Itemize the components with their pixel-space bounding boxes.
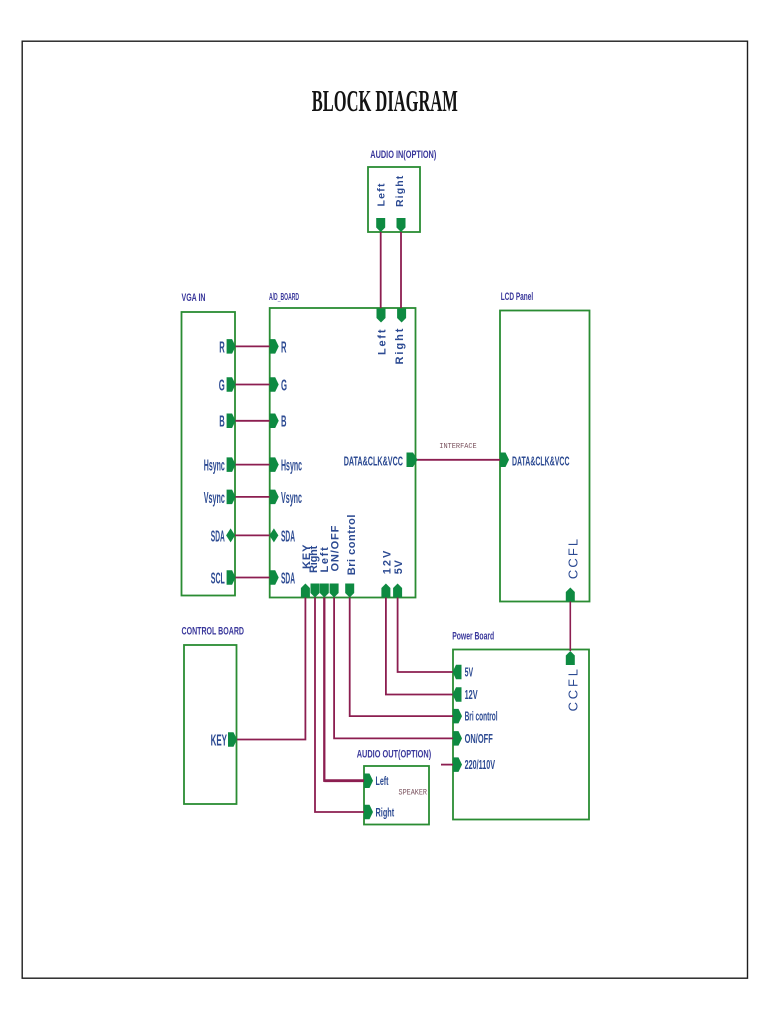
svg-text:R: R — [281, 339, 287, 356]
svg-text:Power Board: Power Board — [452, 631, 494, 643]
svg-text:220/110V: 220/110V — [465, 757, 496, 772]
svg-text:BLOCK DIAGRAM: BLOCK DIAGRAM — [312, 83, 458, 118]
svg-text:B: B — [219, 414, 225, 431]
svg-text:Right: Right — [376, 805, 395, 819]
svg-text:KEY: KEY — [211, 732, 228, 749]
svg-text:DATA&CLK&VCC: DATA&CLK&VCC — [344, 453, 404, 468]
svg-text:Hsync: Hsync — [204, 458, 225, 475]
svg-text:ON/OFF: ON/OFF — [330, 525, 342, 572]
svg-text:Vsync: Vsync — [204, 490, 225, 507]
svg-text:CCFL: CCFL — [565, 537, 580, 579]
svg-text:G: G — [219, 377, 225, 394]
svg-text:Right: Right — [394, 327, 406, 365]
svg-text:Left: Left — [376, 182, 388, 206]
svg-text:Left: Left — [377, 328, 389, 355]
svg-text:B: B — [281, 414, 287, 431]
svg-text:INTERFACE: INTERFACE — [439, 443, 477, 451]
svg-text:CONTROL BOARD: CONTROL BOARD — [182, 626, 245, 638]
svg-text:R: R — [219, 339, 225, 356]
svg-text:Right: Right — [394, 175, 406, 207]
svg-text:5V: 5V — [465, 665, 474, 680]
svg-text:SDA: SDA — [281, 528, 295, 545]
svg-text:Hsync: Hsync — [281, 458, 302, 475]
svg-text:Bri control: Bri control — [346, 514, 358, 575]
svg-text:Bri control: Bri control — [465, 709, 498, 724]
svg-text:Vsync: Vsync — [281, 490, 302, 507]
svg-text:AUDIO OUT(OPTION): AUDIO OUT(OPTION) — [357, 749, 432, 761]
svg-text:12V: 12V — [381, 549, 393, 575]
svg-text:12V: 12V — [465, 687, 478, 702]
svg-text:SPEAKER: SPEAKER — [399, 788, 428, 798]
svg-text:SDA: SDA — [281, 570, 295, 587]
svg-text:A/D_BOARD: A/D_BOARD — [269, 292, 299, 303]
svg-text:DATA&CLK&VCC: DATA&CLK&VCC — [512, 453, 570, 468]
svg-text:SCL: SCL — [211, 570, 225, 587]
svg-text:LCD Panel: LCD Panel — [501, 291, 534, 303]
svg-text:SDA: SDA — [211, 528, 225, 545]
svg-text:Left: Left — [376, 774, 389, 788]
svg-text:VGA IN: VGA IN — [182, 292, 206, 304]
svg-text:5V: 5V — [393, 560, 405, 575]
svg-text:CCFL: CCFL — [565, 666, 580, 711]
svg-text:AUDIO IN(OPTION): AUDIO IN(OPTION) — [370, 149, 436, 161]
svg-text:ON/OFF: ON/OFF — [465, 731, 493, 746]
svg-text:G: G — [281, 377, 287, 394]
